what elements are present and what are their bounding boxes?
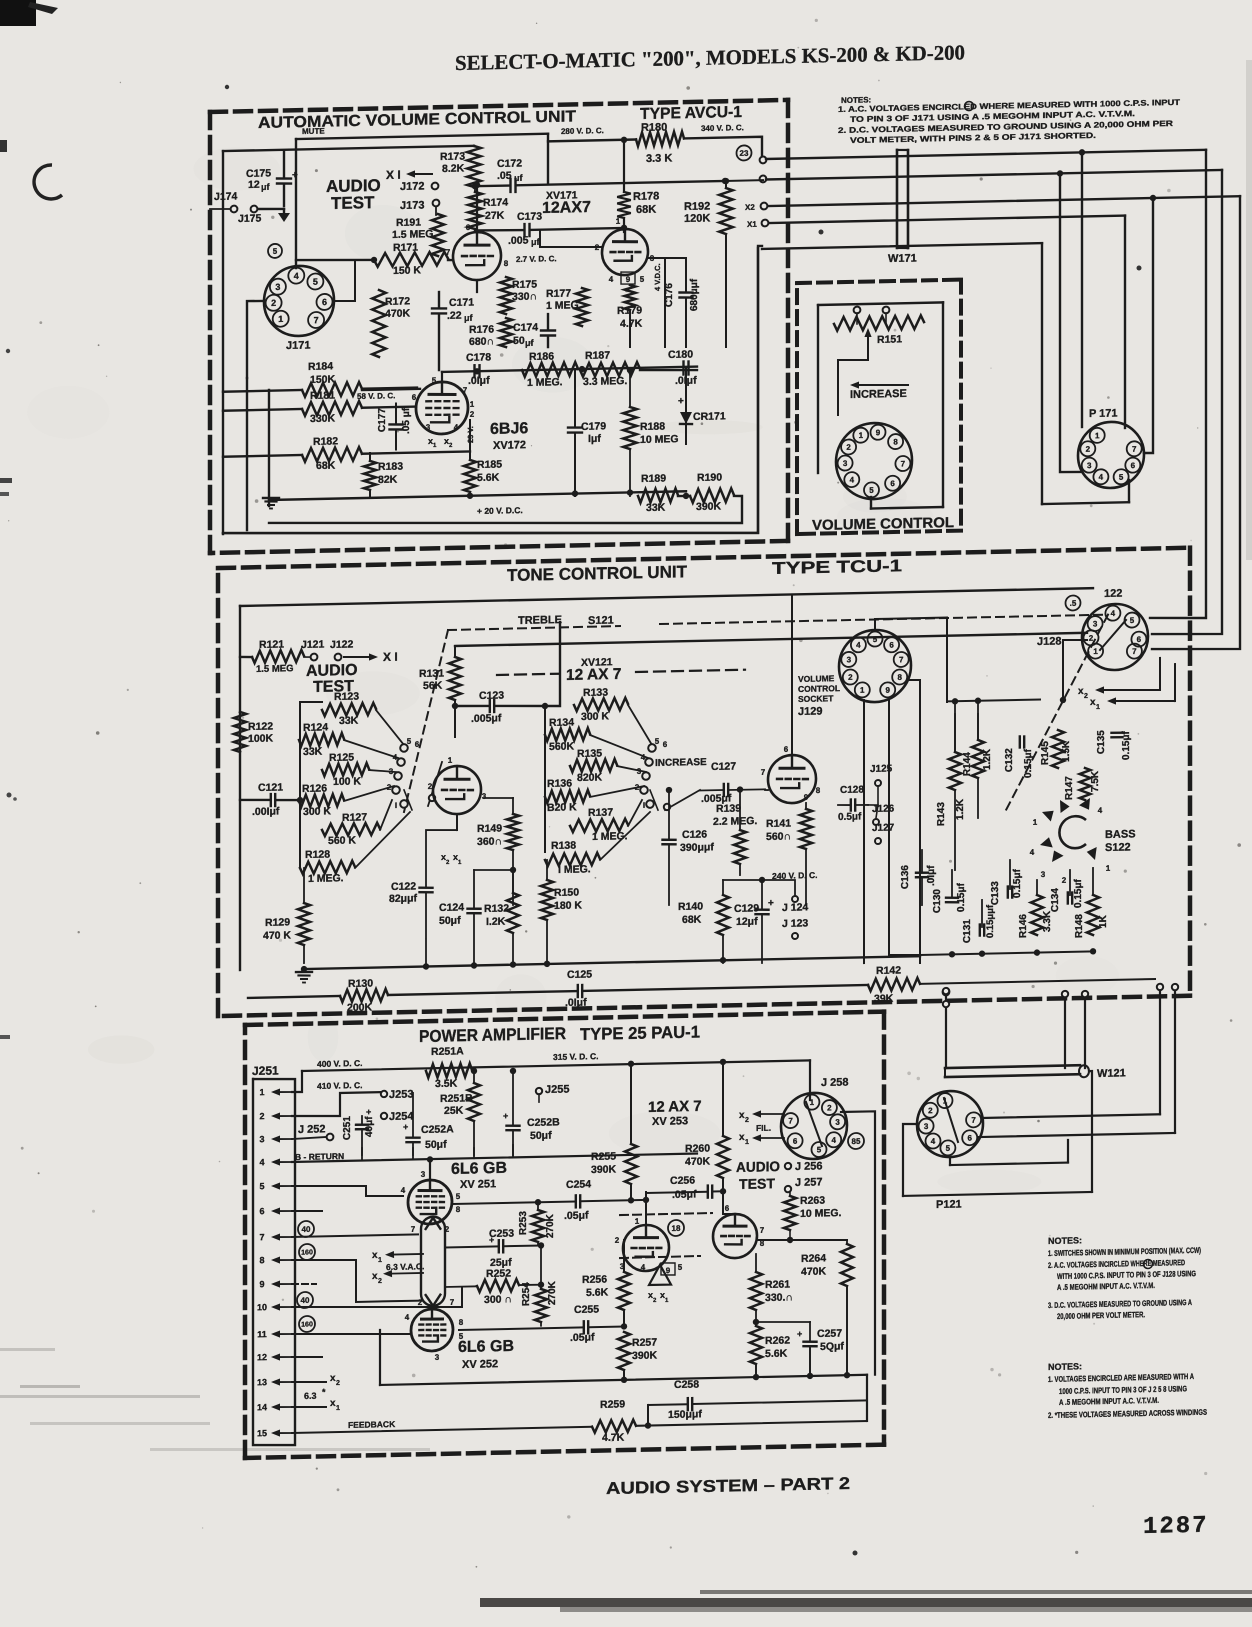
svg-text:R137: R137 — [588, 806, 613, 819]
svg-text:.005: .005 — [508, 235, 529, 247]
wire X2 arrow vertical — [1159, 658, 1161, 690]
svg-text:7: 7 — [760, 1226, 765, 1235]
jack J127 — [872, 823, 895, 845]
label 340 V.D.C. — [701, 123, 744, 133]
volume control dashed box — [797, 280, 961, 534]
diode CR171 — [678, 395, 726, 444]
svg-text:R139: R139 — [716, 803, 741, 816]
svg-text:1: 1 — [470, 400, 475, 409]
resistor R257 — [618, 1331, 658, 1380]
svg-text:6: 6 — [1131, 461, 1136, 470]
svg-text:5: 5 — [1119, 473, 1124, 482]
svg-text:INCREASE: INCREASE — [850, 388, 907, 401]
wire R192 top — [723, 178, 729, 188]
svg-text:.005μf: .005μf — [471, 712, 502, 725]
label W121 — [1097, 1067, 1126, 1080]
J251 pin 13 — [257, 1377, 292, 1388]
label 6.3* (p13) — [304, 1387, 326, 1401]
svg-text:5: 5 — [678, 1263, 683, 1272]
svg-text:5: 5 — [946, 1144, 951, 1153]
label J251 — [252, 1063, 279, 1078]
svg-text:8.2K: 8.2K — [442, 162, 465, 174]
svg-text:6: 6 — [967, 1134, 972, 1143]
capacitor C251 — [342, 1107, 375, 1156]
resistor R136 — [545, 777, 590, 814]
svg-text:2: 2 — [827, 1103, 832, 1112]
resistor R137 — [570, 806, 628, 843]
wire loop W121 to P121 — [903, 1071, 1092, 1196]
svg-text:R257: R257 — [632, 1336, 657, 1349]
wire J251 p14 — [292, 1406, 326, 1407]
voltage circle 85 — [848, 1133, 864, 1149]
svg-text:180 K: 180 K — [554, 899, 582, 912]
wire grid line XV253b — [757, 1236, 847, 1244]
svg-text:INCREASE: INCREASE — [655, 757, 707, 769]
wire R180 to corner — [684, 137, 762, 158]
label XV171 — [546, 189, 578, 202]
svg-text:0.15μf: 0.15μf — [1073, 878, 1084, 908]
tube pentode 6L6GB XV251 — [408, 1180, 452, 1225]
label X1 with arrow (J172) — [386, 167, 432, 182]
svg-text:5.6K: 5.6K — [477, 472, 500, 484]
capacitor C254 — [453, 1177, 646, 1224]
wire R130 line — [248, 991, 577, 998]
wire XV121b plate top — [791, 595, 793, 756]
svg-text:560∩: 560∩ — [766, 830, 791, 843]
svg-text:3: 3 — [482, 792, 487, 801]
svg-text:4: 4 — [641, 1263, 646, 1272]
svg-text:R129: R129 — [265, 916, 290, 929]
svg-text:1287: 1287 — [1143, 1513, 1209, 1541]
svg-text:7: 7 — [899, 655, 904, 664]
wire R187 to C180 — [640, 369, 697, 371]
capacitor C258 — [648, 1375, 867, 1421]
cable W171 — [897, 150, 908, 249]
capacitor C252A — [403, 1092, 454, 1155]
J251 pin 2 — [259, 1111, 292, 1122]
label X1 X2 (6BJ6 filament) — [428, 435, 453, 449]
label +20 V.D.C. — [477, 505, 523, 516]
svg-text:+ 20 V. D.C.: + 20 V. D.C. — [477, 505, 523, 516]
svg-text:R260: R260 — [685, 1142, 710, 1155]
svg-text:1: 1 — [1096, 704, 1100, 711]
wire R138 out — [600, 812, 650, 860]
resistor R255 — [591, 1144, 637, 1185]
label 240 V.D.C. — [772, 870, 818, 881]
svg-text:R173: R173 — [440, 150, 465, 163]
terminal top right 2 — [760, 175, 767, 182]
switch S122 rotary bass — [1030, 795, 1111, 886]
svg-text:W171: W171 — [888, 252, 917, 265]
svg-text:R183: R183 — [378, 460, 403, 473]
label P121 — [936, 1199, 962, 1212]
wire 280vdc bus — [548, 136, 636, 144]
capacitor C127 — [700, 760, 765, 805]
notes header (PAU right) — [1048, 1235, 1082, 1246]
pin 3 XV121a — [482, 792, 487, 801]
wire cathode XV171a down — [476, 280, 478, 292]
PAU2 note 1 line 2 — [1059, 1384, 1187, 1396]
wire vertical to J128 area (1) — [1150, 150, 1206, 619]
wire R182 bus — [223, 451, 470, 456]
svg-text:9: 9 — [804, 793, 809, 802]
label TYPE AVCU-1 — [640, 104, 742, 123]
svg-text:1: 1 — [378, 1257, 382, 1264]
svg-text:J173: J173 — [400, 200, 424, 213]
wire R192 bottom — [725, 234, 727, 347]
resistor R140 — [678, 880, 729, 964]
resistor R129 — [263, 868, 310, 964]
capacitor C125 — [565, 963, 868, 1009]
jack J255 — [536, 1083, 570, 1096]
svg-text:2: 2 — [1084, 693, 1088, 700]
svg-text:7: 7 — [761, 768, 766, 777]
svg-text:TREBLE: TREBLE — [518, 614, 562, 627]
svg-text:2: 2 — [615, 1236, 620, 1245]
note 2 line 1 — [838, 119, 1173, 135]
svg-text:R125: R125 — [329, 751, 354, 764]
label X2 X1 XV253 — [648, 1290, 669, 1305]
dashes left of 12AX7 — [497, 674, 558, 675]
svg-text:2: 2 — [848, 673, 853, 682]
resistor R256 — [582, 1272, 630, 1311]
svg-text:R145: R145 — [1040, 741, 1051, 766]
wire R189-R190 junction — [678, 493, 690, 500]
wire upper bus left — [223, 146, 474, 151]
svg-text:C123: C123 — [479, 689, 504, 702]
capacitor C171 — [432, 291, 474, 370]
pin 5 6BJ6 — [432, 376, 437, 385]
svg-text:270K: 270K — [545, 1213, 556, 1238]
jack J257 — [785, 1176, 823, 1192]
wire down x1085 — [1082, 991, 1088, 1068]
resistor R145 — [1040, 730, 1072, 769]
resistor R142 — [868, 964, 920, 1005]
label BASS S122 — [1105, 828, 1136, 854]
svg-text:4: 4 — [609, 275, 614, 284]
svg-text:2: 2 — [1089, 634, 1094, 643]
svg-text:R131: R131 — [419, 668, 444, 681]
note 2 line 2 — [850, 131, 1096, 145]
note 1 line 1 — [838, 98, 1180, 114]
wire R121 left — [240, 656, 252, 659]
pin 2 XV251 — [445, 1225, 450, 1234]
svg-text:7: 7 — [1132, 647, 1137, 656]
capacitor C128 — [838, 784, 868, 823]
wire X2 to P171 pin6 — [768, 193, 1240, 461]
svg-text:1: 1 — [336, 1405, 340, 1412]
svg-text:5Qμf: 5Qμf — [820, 1340, 844, 1353]
jack J121 — [301, 639, 325, 661]
J251 pin 11 — [257, 1329, 292, 1340]
wire bus below tubes — [442, 364, 697, 382]
svg-text:4: 4 — [850, 475, 855, 484]
svg-text:S122: S122 — [1105, 841, 1131, 854]
wire J255 stub — [538, 1094, 540, 1102]
svg-text:SELECT-O-MATIC "200", MODELS: SELECT-O-MATIC "200", MODELS KS-200 & KD… — [455, 40, 965, 75]
svg-text:40μf: 40μf — [364, 1116, 375, 1137]
svg-text:4: 4 — [294, 271, 299, 281]
capacitor C126 — [663, 786, 715, 905]
svg-text:6: 6 — [725, 1204, 730, 1213]
svg-text:1. VOLTAGES ENCIRCLED ARE M: 1. VOLTAGES ENCIRCLED ARE MEASURED WITH … — [1048, 1372, 1194, 1384]
PAU-1 enclosure dashed box — [245, 1012, 884, 1458]
svg-text:3: 3 — [259, 1134, 264, 1144]
socket J128 — [1082, 603, 1148, 670]
svg-text:300 K: 300 K — [581, 710, 609, 723]
svg-text:R138: R138 — [551, 839, 576, 852]
svg-text:12: 12 — [248, 179, 260, 191]
socket P171 — [1078, 421, 1144, 488]
jack J173 — [400, 199, 439, 212]
svg-text:TYPE TCU-1: TYPE TCU-1 — [772, 556, 902, 578]
tube triode XV253a — [623, 1225, 669, 1272]
wire J251 p6 stub — [292, 1210, 322, 1211]
svg-text:C136: C136 — [900, 865, 911, 890]
terminal TCU bottom small — [943, 988, 949, 1008]
svg-text:680∩: 680∩ — [469, 335, 494, 348]
wire XV121b grid — [765, 789, 768, 791]
wire 240vdc node — [723, 876, 795, 897]
svg-text:330∩: 330∩ — [512, 290, 537, 303]
svg-text:33K: 33K — [339, 715, 359, 727]
svg-text:4: 4 — [1099, 473, 1104, 482]
capacitor C257 — [797, 1321, 844, 1374]
svg-text:C130: C130 — [932, 889, 943, 914]
pin 3 XV253a — [620, 1262, 625, 1271]
svg-text:4: 4 — [259, 1157, 264, 1167]
svg-text:J254: J254 — [389, 1110, 414, 1123]
svg-text:3.3 MEG.: 3.3 MEG. — [583, 375, 627, 388]
pin 2 6BJ6 — [470, 410, 475, 419]
label 122 (J128) — [1104, 588, 1122, 600]
svg-text:μf: μf — [464, 313, 474, 323]
svg-text:CONTROL: CONTROL — [798, 683, 840, 694]
wire J258 pin2 right bus — [841, 1111, 875, 1375]
svg-text:C122: C122 — [391, 881, 416, 894]
dashed link XV253 (upper) — [620, 1213, 712, 1215]
svg-text:5: 5 — [432, 376, 437, 385]
wire bass verticals — [952, 858, 1093, 927]
svg-text:1.5 MEG: 1.5 MEG — [392, 228, 433, 241]
svg-text:6BJ6: 6BJ6 — [490, 420, 528, 438]
label P171 — [1089, 407, 1118, 420]
svg-text:3: 3 — [435, 1353, 440, 1362]
pin 3 XV251 — [421, 1170, 426, 1179]
boxed 9 XV171b — [621, 272, 635, 285]
svg-text:7: 7 — [259, 1232, 264, 1242]
switch S121 right contacts — [635, 737, 668, 811]
svg-text:1: 1 — [745, 1139, 749, 1146]
svg-text:2: 2 — [653, 1298, 657, 1304]
resistor R263 — [784, 1191, 842, 1240]
svg-text:6: 6 — [663, 740, 668, 749]
svg-text:5: 5 — [259, 1181, 264, 1191]
wire mute corner drop — [547, 134, 549, 184]
svg-text:R149: R149 — [477, 823, 502, 836]
svg-text:μf: μf — [261, 182, 271, 192]
capacitor C132 — [1004, 736, 1034, 778]
capacitor C133 — [990, 868, 1023, 905]
wire XV171b grid left — [540, 229, 602, 249]
wire XV171b plate up — [621, 218, 627, 232]
pin 4 6BJ6 — [454, 423, 459, 432]
pin 3 XV252 — [435, 1353, 440, 1362]
label VOLUME CONTROL SOCKET — [798, 673, 840, 718]
svg-text:8: 8 — [504, 259, 509, 268]
svg-text:R256: R256 — [582, 1274, 607, 1287]
svg-text:7: 7 — [463, 386, 468, 395]
svg-text:6: 6 — [793, 1137, 798, 1146]
svg-text:R180: R180 — [641, 121, 667, 134]
pin 6 label XV171a — [466, 223, 471, 232]
label POWER AMPLIFIER TYPE 25 PAU-1 — [419, 1021, 700, 1047]
wire mute drop to J171 pin4 — [295, 139, 297, 268]
svg-text:10: 10 — [257, 1302, 267, 1312]
resistor R150 — [541, 859, 583, 963]
svg-text:R172: R172 — [385, 295, 410, 308]
wire terminal1 to P171 pin1 — [766, 147, 1206, 434]
svg-text:4: 4 — [454, 423, 459, 432]
capacitor C131 — [962, 904, 996, 943]
svg-text:R187: R187 — [585, 349, 610, 362]
label AUDIO TEST (AVCU) — [326, 176, 381, 213]
label 410 V.D.C. — [317, 1080, 363, 1091]
svg-text:82K: 82K — [378, 474, 398, 486]
svg-text:R192: R192 — [684, 200, 710, 213]
capacitor C255 — [459, 1303, 624, 1346]
resistor R131 — [419, 657, 461, 701]
label 6L6GB XV252 — [458, 1338, 514, 1371]
resistor R259 — [592, 1398, 636, 1444]
label FIL. — [756, 1123, 771, 1133]
svg-text:CR171: CR171 — [693, 410, 726, 423]
pin 4 5 XV253 center — [641, 1262, 683, 1273]
wire J251 p9 dash — [292, 1283, 316, 1284]
svg-text:270K: 270K — [547, 1280, 558, 1305]
svg-text:VOLUME CONTROL: VOLUME CONTROL — [812, 515, 954, 534]
svg-text:0.5μf: 0.5μf — [838, 811, 862, 823]
svg-text:C173: C173 — [517, 210, 542, 223]
svg-text:X2: X2 — [745, 203, 755, 212]
J251 pin 10 — [257, 1302, 292, 1313]
pin 8 XV252 — [459, 1318, 464, 1327]
svg-text:SOCKET: SOCKET — [798, 693, 834, 704]
svg-text:4: 4 — [405, 1313, 410, 1322]
svg-text:C258: C258 — [674, 1378, 699, 1391]
wire R124 out — [344, 739, 398, 759]
pin 1 XV121a — [448, 756, 453, 765]
svg-text:C121: C121 — [258, 781, 283, 794]
dashes right of 12AX7 — [636, 670, 745, 672]
svg-text:200K: 200K — [347, 1002, 373, 1015]
svg-text:3. D.C. VOLTAGES MEASURED T: 3. D.C. VOLTAGES MEASURED TO GROUND USIN… — [1048, 1298, 1192, 1310]
resistor R146 — [1018, 895, 1053, 938]
wire vertical to J128 area (2) — [1152, 170, 1222, 635]
J251 pin 5 — [259, 1181, 292, 1192]
wire outer return line — [223, 248, 758, 544]
resistor R261 — [750, 1253, 793, 1322]
svg-text:3: 3 — [421, 1170, 426, 1179]
svg-text:C254: C254 — [566, 1178, 591, 1191]
svg-text:TEST: TEST — [739, 1175, 775, 1192]
capacitor C178 — [466, 351, 491, 387]
svg-text:C180: C180 — [668, 349, 693, 362]
wire J251 p11 line — [292, 1332, 409, 1337]
svg-text:TYPE 25 PAU-1: TYPE 25 PAU-1 — [580, 1022, 700, 1044]
resistor R186 — [522, 350, 578, 389]
wire 410vdc bus — [292, 1092, 380, 1117]
dashed link XV253 (lower) — [620, 1256, 700, 1258]
label X2 X1 (XV121a fil) — [441, 852, 462, 867]
voltage circle 40 (b) — [297, 1292, 313, 1308]
svg-text:C177: C177 — [377, 408, 388, 433]
resistor R122 — [234, 711, 274, 752]
svg-text:1 MEG.: 1 MEG. — [592, 830, 628, 843]
resistor R148 — [1074, 895, 1109, 939]
wire r184 bus left — [223, 390, 302, 392]
svg-text:Iμf: Iμf — [588, 433, 601, 445]
svg-text:I: I — [643, 801, 645, 810]
pin 4 label XV171b — [609, 275, 614, 284]
svg-text:J129: J129 — [798, 706, 822, 719]
jack J256 — [785, 1160, 823, 1173]
svg-text:3.5K: 3.5K — [435, 1078, 458, 1090]
tube triode XV253b — [713, 1214, 757, 1259]
resistor R174 — [468, 182, 508, 229]
pin 6 XV253b — [725, 1204, 730, 1213]
notes header (top right) — [841, 95, 871, 105]
svg-text:R175: R175 — [512, 278, 537, 291]
capacitor C121 — [240, 781, 300, 818]
svg-text:R190: R190 — [697, 472, 722, 485]
svg-text:360∩: 360∩ — [477, 836, 502, 849]
wire R255 bottom — [628, 1184, 634, 1204]
wire XV121a cathode — [456, 814, 458, 830]
svg-text:B20 K: B20 K — [547, 801, 577, 814]
pin 2 XV252 — [418, 1298, 423, 1307]
resistor R190 — [690, 471, 734, 513]
svg-text:1 MEG.: 1 MEG. — [308, 872, 344, 885]
svg-text:R252: R252 — [486, 1268, 511, 1281]
svg-text:R136: R136 — [547, 777, 572, 790]
wire C257 top — [756, 1321, 810, 1323]
jack J252 — [292, 1123, 333, 1141]
svg-text:85: 85 — [852, 1137, 861, 1146]
svg-text:6: 6 — [415, 740, 420, 749]
svg-text:560K: 560K — [549, 740, 575, 753]
svg-text:A .5 MEGOHM INPUT A.C. V.: A .5 MEGOHM INPUT A.C. V.T.V.M. — [1057, 1281, 1155, 1292]
svg-text:2: 2 — [846, 443, 851, 452]
label W171 — [888, 252, 917, 265]
notes header 2 (PAU right) — [1048, 1361, 1082, 1372]
PAU note 1 — [1048, 1246, 1201, 1258]
capacitor C180 — [668, 348, 697, 387]
J251 pin 3 — [259, 1134, 292, 1145]
svg-text:2. *THESE VOLTAGES MEASURED: 2. *THESE VOLTAGES MEASURED ACROSS WINDI… — [1048, 1408, 1208, 1420]
wire down x1065 — [1062, 991, 1068, 1068]
svg-text:R253: R253 — [518, 1211, 529, 1236]
wire left vertical 3 — [268, 390, 270, 506]
svg-text:39K: 39K — [874, 993, 894, 1005]
svg-text:R185: R185 — [477, 459, 502, 472]
svg-text:C252A: C252A — [421, 1123, 454, 1136]
svg-text:R150: R150 — [554, 886, 579, 899]
svg-text:470K: 470K — [385, 307, 411, 320]
svg-text:R146: R146 — [1018, 914, 1029, 939]
wire R184 to tube — [362, 388, 417, 389]
PAU note 3 line 2 — [1057, 1310, 1145, 1321]
